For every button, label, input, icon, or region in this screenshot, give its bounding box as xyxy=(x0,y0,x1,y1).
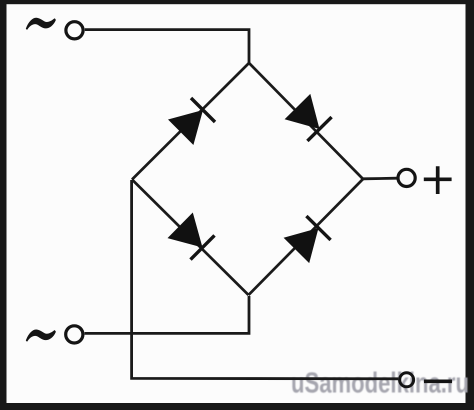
diode D1 (left vertex to top vertex) xyxy=(168,98,215,145)
AC label tilde 2 xyxy=(26,330,55,341)
plus sign xyxy=(424,166,452,194)
minus sign xyxy=(424,379,452,383)
wire bridge edge left-top xyxy=(132,63,249,180)
wire T1 to bridge top vertex xyxy=(85,30,249,64)
terminal - output xyxy=(400,373,414,387)
wire T2 to bridge bottom vertex xyxy=(85,296,249,333)
svg-text:uSamodelkina.ru: uSamodelkina.ru xyxy=(291,368,469,400)
diode D4 (bottom vertex to right vertex) xyxy=(284,216,331,263)
wire bridge edge left-bottom xyxy=(132,180,249,296)
wire bridge left vertex down and along bottom to - terminal xyxy=(132,180,399,379)
diode D2 (top vertex to right vertex) xyxy=(285,94,332,141)
wire bridge edge bottom-right xyxy=(249,179,364,295)
terminal T1 (AC input 1) xyxy=(66,22,83,39)
terminal + output xyxy=(398,169,415,186)
wire bridge edge top-right xyxy=(249,63,363,179)
diode D3 (left vertex to bottom vertex) xyxy=(168,213,215,260)
wire bridge right vertex to + terminal xyxy=(363,177,397,180)
terminal T2 (AC input 2) xyxy=(66,326,83,343)
AC label tilde 1 xyxy=(26,18,55,29)
